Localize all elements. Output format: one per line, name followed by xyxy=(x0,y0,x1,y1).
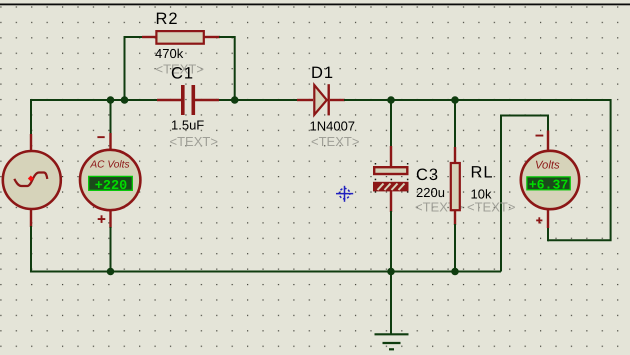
DC voltmeter xyxy=(521,135,579,224)
AC source V1 xyxy=(3,151,61,209)
wire: C3 bottom pin xyxy=(390,191,392,212)
node: AC voltmeter bottom junction xyxy=(107,268,115,276)
wire: RL top lead xyxy=(454,100,456,148)
svg-text:<TEXT>: <TEXT> xyxy=(311,134,359,149)
svg-text:470k: 470k xyxy=(155,46,184,61)
wire: AC voltmeter top lead xyxy=(110,100,112,134)
node: R2/C1 right junction xyxy=(231,96,239,104)
svg-text:R2: R2 xyxy=(156,10,179,28)
wire: bus C1 to D1 xyxy=(219,99,298,101)
wire: source top pin xyxy=(30,134,32,151)
wire: C3 bottom lead xyxy=(390,211,392,272)
wire: source bottom pin xyxy=(30,209,32,227)
resistor RL xyxy=(451,163,460,210)
wire: C1 right pin xyxy=(195,99,219,101)
node: ground junction xyxy=(387,268,395,276)
wire: C3 top pin xyxy=(390,146,392,167)
wire: RL top pin xyxy=(454,147,456,163)
resistor R2 xyxy=(156,31,203,44)
wire: R2 right branch xyxy=(219,37,235,100)
wire: R2 right pin xyxy=(204,36,220,38)
svg-text:1N4007: 1N4007 xyxy=(310,118,356,133)
ground xyxy=(375,334,409,349)
wire: D1 cathode pin xyxy=(330,99,345,101)
svg-text:RL: RL xyxy=(471,164,494,182)
svg-text:+6.37: +6.37 xyxy=(529,177,569,192)
wire: R2 left branch xyxy=(125,37,144,100)
wire: C1 left pin xyxy=(157,99,181,101)
wire: D1 anode pin xyxy=(297,99,313,101)
svg-text:AC Volts: AC Volts xyxy=(89,159,129,170)
svg-text:<TEXT>: <TEXT> xyxy=(467,199,515,214)
svg-text:C1: C1 xyxy=(171,65,194,83)
wire: bus D1 to right corner xyxy=(344,100,611,240)
svg-text:D1: D1 xyxy=(311,64,334,82)
node: C3 top junction xyxy=(387,96,395,104)
wire: source bottom lead + bottom bus xyxy=(31,226,501,272)
svg-text:220u: 220u xyxy=(416,185,445,200)
node: AC voltmeter top junction xyxy=(107,96,115,104)
capacitor C3 (electrolytic) xyxy=(373,163,409,193)
AC voltmeter xyxy=(80,136,140,223)
svg-text:1.5uF: 1.5uF xyxy=(171,118,204,133)
origin marker xyxy=(336,186,353,202)
wire: RL bottom pin xyxy=(454,211,456,225)
svg-text:+220: +220 xyxy=(95,179,127,194)
svg-text:C3: C3 xyxy=(416,166,439,184)
wire: AC voltmeter bottom pin xyxy=(109,211,111,228)
wire: AC voltmeter top pin xyxy=(109,133,111,150)
capacitor C1 xyxy=(181,85,195,115)
wire: AC voltmeter bottom lead xyxy=(110,227,112,272)
diode D1 xyxy=(314,84,328,115)
svg-text:<TEXT>: <TEXT> xyxy=(170,134,218,149)
wire: ground stem xyxy=(390,272,392,335)
wire: voltmeter minus loop xyxy=(501,116,548,272)
wire: voltmeter plus lead xyxy=(547,227,549,241)
wire: R2 left pin xyxy=(142,36,156,38)
wire: top bus left (source to C1) xyxy=(31,100,160,150)
wire: voltmeter minus pin xyxy=(547,131,549,151)
svg-text:Volts: Volts xyxy=(535,160,560,172)
node: RL bottom junction xyxy=(451,268,459,276)
wire: C3 top lead xyxy=(390,100,392,147)
wire: voltmeter plus pin xyxy=(547,209,549,228)
node: RL top junction xyxy=(451,96,459,104)
node: R2/C1 left junction xyxy=(121,96,129,104)
wire: RL bottom lead xyxy=(454,224,456,272)
